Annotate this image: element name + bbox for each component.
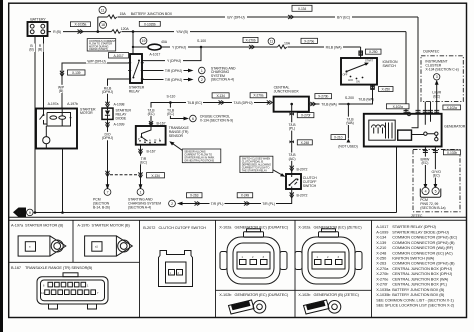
legend list entry X-1035b: [376, 293, 445, 297]
svg-text:7: 7: [107, 190, 109, 194]
svg-text:SEE COMMON CONN. LIST - (SECTI: SEE COMMON CONN. LIST - (SECTION X-1): [376, 298, 454, 302]
svg-text:a: a: [29, 246, 31, 249]
svg-text:CENTRAL JUNCTION BOX (DPHJ): CENTRAL JUNCTION BOX (DPHJ): [392, 272, 453, 276]
label Y/W (B): [174, 29, 190, 34]
svg-text:2: 2: [171, 202, 173, 206]
pointer arrow from clutch note: [273, 170, 283, 176]
connector label X-102a left: [386, 104, 409, 109]
inline connector chevron on D/O wire: [106, 171, 110, 177]
inline connector chevron B-167 out: [139, 149, 143, 155]
relay output wire to circle 1: [142, 70, 188, 72]
battery negative wire to ground rail: [34, 36, 36, 213]
svg-text:1: 1: [317, 255, 319, 259]
connector label X-210: [331, 135, 346, 140]
label Y (DPHJ) relay branch: [165, 58, 183, 63]
label IGNITION SWITCH: [383, 60, 398, 68]
T/LB feed corner to TR sensor: [151, 103, 269, 127]
label T/LB (PL): [285, 122, 299, 130]
svg-text:R: R: [144, 138, 146, 142]
label T/LB (EC) on run: [186, 100, 203, 105]
fuse 15A squiggle: [108, 15, 118, 19]
svg-text:X-270b: X-270b: [245, 38, 255, 42]
transaxle range sensor B-167: [136, 126, 166, 145]
PCM pin circle 5: [432, 187, 439, 194]
label T/R (DPHJ) lower: [164, 77, 184, 82]
destination circle 2 starting and charging: [199, 76, 206, 83]
svg-text:G: G: [17, 211, 21, 217]
svg-text:11: 11: [101, 8, 105, 12]
svg-text:T/LB (EC): T/LB (EC): [187, 101, 202, 105]
svg-text:11: 11: [270, 40, 274, 44]
cluster wires down to generator: [425, 102, 430, 114]
svg-text:STARTER RELAY DIODE (DPHJ): STARTER RELAY DIODE (DPHJ): [392, 230, 449, 234]
svg-text:X-1035b: X-1035b: [144, 22, 156, 26]
label INSTRUMENT CLUSTER X-134 (SECTION C-e): [425, 60, 458, 72]
legend list entry X-1035a: [376, 288, 445, 292]
svg-text:T/R (PL): T/R (PL): [262, 202, 275, 206]
svg-text:(SECTION A-4): (SECTION A-4): [211, 78, 234, 82]
legend list entry X-248: [376, 251, 453, 255]
connector label X-263: [187, 193, 203, 198]
legend list entry X-270b: [376, 272, 453, 276]
arrowhead into circle 6: [184, 117, 190, 121]
svg-text:X-263: X-263: [376, 262, 386, 266]
arrowhead into circle 1 low: [139, 184, 143, 190]
starter relay diode A-1099: [102, 108, 113, 119]
svg-text:ACC: ACC: [348, 78, 353, 82]
label T/R (PL): [210, 201, 225, 206]
dashed tie wire to T/R circuit: [110, 174, 139, 176]
scan edge strip: [0, 0, 3, 332]
relay output wire to circle 2: [142, 79, 188, 81]
node splice S-100: [200, 46, 203, 49]
svg-text:2: 2: [178, 271, 180, 275]
connector label X-270e fuse row: [301, 38, 318, 43]
svg-text:A-1017: A-1017: [113, 54, 123, 58]
svg-text:IGNITION SWITCH (WA): IGNITION SWITCH (WA): [392, 257, 435, 261]
svg-text:X-250: X-250: [382, 88, 391, 92]
connector label X-270b right: [315, 94, 332, 99]
arrowheads into PCM circles: [424, 184, 428, 189]
legend icon TR sensor connector B-167: [37, 273, 108, 309]
svg-text:X-270a: X-270a: [376, 267, 389, 271]
inline connector chevron A-1098: [106, 102, 110, 108]
inline connector chevron on R (B) wire: [78, 30, 84, 34]
svg-text:1: 1: [201, 69, 203, 73]
svg-text:A-1099: A-1099: [114, 123, 125, 127]
legend list entry X-270f: [376, 283, 447, 287]
svg-text:X-134: X-134: [376, 236, 387, 240]
svg-text:(EC): (EC): [433, 174, 440, 178]
circle marker 11 top: [99, 6, 106, 13]
svg-text:OR NEUTRAL POSITIONS: OR NEUTRAL POSITIONS: [184, 159, 214, 163]
inline connector chevron A-1099: [106, 122, 110, 128]
svg-text:X-210: X-210: [334, 136, 343, 140]
svg-text:(PL): (PL): [289, 127, 295, 131]
PCM pin circle 4: [422, 187, 429, 194]
label B/Y (DPHJ) on 15A row: [225, 15, 247, 20]
svg-text:RELAY: RELAY: [129, 89, 141, 93]
label T/R (PL) 2: [261, 201, 276, 206]
note CRUISE CONTROL X-134 (SECTION N-9): [200, 114, 233, 122]
svg-text:40A: 40A: [161, 40, 168, 44]
legend header X-102b GENERATOR (B) (ZETEC): [298, 293, 359, 297]
connector label X-134 mid: [212, 93, 229, 98]
label PCM PINS 72, 99 (SECTION B-1a): [420, 198, 445, 210]
legend list entry X-134: [376, 236, 458, 240]
svg-text:X-1035a: X-1035a: [75, 23, 87, 27]
legend header X-102a GENERATOR (EC) (DURATEC): [219, 226, 289, 230]
connector label X-250 low: [379, 87, 394, 92]
svg-text:COMMON CONNECTOR (WA) (RF): COMMON CONNECTOR (WA) (RF): [392, 246, 454, 250]
svg-text:(B): (B): [59, 89, 63, 93]
svg-text:X-270e: X-270e: [376, 277, 388, 281]
label CENTRAL JUNCTION BOX: [274, 86, 300, 94]
svg-text:X-102b: X-102b: [298, 293, 310, 297]
svg-text:DIODE: DIODE: [116, 116, 127, 120]
legend icon generator connector ZETEC: [295, 229, 362, 284]
svg-text:Y (DPHJ): Y (DPHJ): [167, 59, 181, 63]
arrowhead into circle 1: [188, 69, 194, 73]
generator regulator block: [398, 130, 412, 140]
battery: [28, 22, 48, 36]
svg-text:COMMON CONNECTOR (EC) (AC): COMMON CONNECTOR (EC) (AC): [392, 251, 453, 255]
svg-text:(NOT USED): (NOT USED): [338, 144, 358, 148]
legend list entry X-263: [376, 262, 455, 266]
svg-text:TRANSAXLE RANGE (TR) SENSOR(B): TRANSAXLE RANGE (TR) SENSOR(B): [25, 266, 93, 270]
svg-text:X-134 (SECTION N-9): X-134 (SECTION N-9): [200, 118, 233, 122]
ground marker G blob: [13, 208, 33, 218]
svg-text:B-14, B-2b): B-14, B-2b): [93, 205, 110, 209]
S-200 stub wire X-210: [347, 104, 349, 139]
svg-text:X-102b: X-102b: [219, 293, 231, 297]
note box switch closes: [240, 156, 273, 172]
svg-text:X-250: X-250: [369, 50, 378, 54]
B-167 label above sensor: [149, 121, 153, 126]
svg-text:X-270f: X-270f: [376, 283, 388, 287]
svg-text:SENSOR: SENSOR: [169, 134, 184, 138]
svg-text:D: D: [155, 138, 157, 142]
label T/LB (EC) sensor drop: [146, 108, 156, 116]
svg-text:B-2072: B-2072: [297, 194, 308, 198]
svg-text:5: 5: [435, 189, 437, 193]
svg-text:BATTERY: BATTERY: [30, 17, 46, 21]
svg-text:T/R (DPHJ): T/R (DPHJ): [165, 69, 182, 73]
svg-text:2: 2: [327, 255, 329, 259]
svg-text:10A: 10A: [284, 42, 291, 46]
clutch cutoff switch B-2072: [286, 174, 301, 189]
node fuse branch: [132, 46, 134, 48]
inline connector chevron on B/Y wire: [288, 15, 294, 19]
svg-text:S-100: S-100: [197, 39, 206, 43]
connector label X-248: [297, 140, 312, 145]
svg-text:SWITCH: SWITCH: [303, 184, 317, 188]
generator box: [364, 114, 442, 147]
15A fuse row wire: [98, 16, 418, 18]
label R/LB (WA): [324, 45, 343, 50]
svg-text:GENERATOR: GENERATOR: [444, 125, 466, 129]
svg-text:X-270b: X-270b: [318, 95, 328, 99]
starter relay S-100 branch wire: [142, 47, 201, 61]
inline connector chevron X-134 on T/LB run: [219, 101, 225, 105]
destination circle 1 starting and charging: [199, 67, 206, 74]
svg-text:DURATEC: DURATEC: [423, 50, 440, 54]
svg-text:1: 1: [140, 190, 142, 194]
svg-text:A-1099: A-1099: [376, 230, 388, 234]
legend list entry X-270a: [376, 267, 453, 271]
svg-text:18: 18: [101, 23, 105, 27]
svg-text:X-248: X-248: [376, 251, 386, 255]
connector label X-250 top: [365, 49, 381, 54]
inline connector chevron on Y wire: [249, 45, 255, 49]
connector label X-270f: [297, 113, 314, 118]
legend list entry A-1099: [376, 230, 449, 234]
starter motor A-197: [36, 109, 77, 149]
svg-text:COMMON CONNECTOR (DPHJ) (EC): COMMON CONNECTOR (DPHJ) (EC): [392, 236, 458, 240]
svg-text:SWITCH: SWITCH: [383, 64, 397, 68]
generator internal links: [412, 114, 437, 138]
connector label X-1035a: [70, 22, 90, 27]
svg-text:S-200: S-200: [345, 96, 354, 100]
diode output wire down: [107, 119, 109, 185]
svg-text:X-134: X-134: [216, 94, 225, 98]
svg-text:(B): (B): [38, 48, 42, 52]
svg-text:(EC): (EC): [140, 161, 147, 165]
bowtie connector X-248: [290, 140, 294, 143]
svg-text:A-1017: A-1017: [149, 52, 160, 56]
svg-text:6: 6: [192, 117, 194, 121]
svg-text:START: START: [365, 59, 373, 63]
svg-text:3: 3: [436, 75, 438, 79]
svg-text:(WA): (WA): [346, 121, 354, 125]
svg-text:X-102a: X-102a: [393, 105, 403, 109]
svg-text:X-270f: X-270f: [301, 114, 310, 118]
svg-text:120A: 120A: [121, 27, 130, 31]
svg-text:6: 6: [43, 284, 45, 288]
connector label X-139: [68, 70, 86, 75]
svg-text:COMMON CONNECTOR (DPHJ) (B): COMMON CONNECTOR (DPHJ) (B): [392, 262, 455, 266]
svg-text:T/LB (WA): T/LB (WA): [358, 97, 373, 101]
clutch switch lower wire: [183, 189, 292, 204]
wire down to ignition switch: [360, 47, 362, 58]
inline connector chevron X-134 low: [139, 172, 143, 178]
legend vertical dividers: [73, 220, 372, 317]
pointer arrow from sensor note: [172, 143, 183, 151]
svg-text:BATTERY JUNCTION BOX (B): BATTERY JUNCTION BOX (B): [392, 293, 445, 297]
label TRANSAXLE RANGE (TR) SENSOR: [169, 126, 190, 138]
svg-text:X-102b: X-102b: [447, 151, 457, 155]
svg-text:X-250: X-250: [376, 257, 386, 261]
legend header B-167 TRANSAXLE RANGE (TR) SENSOR(B): [11, 266, 93, 270]
svg-text:N: N: [149, 139, 151, 143]
label T/LB (EC) branch: [165, 108, 175, 116]
bowtie connector X-270f: [290, 112, 294, 115]
arrow up into circle 3: [436, 84, 438, 89]
svg-text:B/Y (EC): B/Y (EC): [337, 15, 350, 19]
wire drop from bus to starter relay: [132, 32, 134, 54]
wire 40A feed row: [161, 46, 360, 48]
label T/LB (WA): [320, 102, 339, 107]
node splice S-200: [347, 103, 350, 106]
destination circle 3 instrument cluster: [434, 74, 440, 80]
svg-text:A-1017: A-1017: [376, 225, 388, 229]
legend header A-197b STARTER MOTOR (B): [77, 224, 130, 228]
legend icon starter motor connector A-197a: [18, 236, 66, 256]
connector label X-249: [237, 193, 253, 198]
node splice S-110: [169, 101, 172, 104]
svg-text:3: 3: [263, 255, 265, 259]
svg-text:L: L: [159, 137, 161, 141]
label R/LB (DPHJ): [99, 86, 116, 94]
label W/P (B): [56, 85, 66, 93]
svg-text:X-134: X-134: [151, 174, 160, 178]
legend row divider generator block: [216, 289, 372, 291]
svg-text:X-102a: X-102a: [447, 106, 457, 110]
svg-text:X-210: X-210: [376, 246, 386, 250]
ZETEC dash box: [413, 150, 460, 212]
svg-text:X-1035b: X-1035b: [376, 293, 390, 297]
svg-text:JUNCTION BOX: JUNCTION BOX: [274, 89, 300, 93]
inline connector chevron B-2072 low: [290, 192, 294, 198]
connector label X-102b: [443, 150, 460, 155]
label B/Y (EC): [335, 15, 352, 20]
legend list entry X-139: [376, 241, 455, 245]
svg-text:(DPHJ): (DPHJ): [102, 136, 113, 140]
svg-text:B-2072: B-2072: [297, 168, 308, 172]
svg-text:A-197b: A-197b: [67, 102, 78, 106]
svg-text:X-270e: X-270e: [304, 39, 314, 43]
inline connector chevron out of CJB: [310, 102, 316, 106]
svg-text:7: 7: [97, 291, 99, 295]
legend header B-2072 CLUTCH CUTOFF SWITCH: [143, 226, 206, 230]
battery positive cable label R (B): [37, 44, 44, 53]
legend icon ring terminal ZETEC: [304, 300, 341, 314]
svg-text:SEE SPLICE LOCATION LIST (SECT: SEE SPLICE LOCATION LIST (SECTION X-2): [376, 304, 455, 308]
svg-text:X-139: X-139: [376, 241, 386, 245]
svg-text:X-270a: X-270a: [253, 94, 263, 98]
relay label box A-1017: [109, 53, 129, 59]
svg-text:X-248: X-248: [301, 141, 310, 145]
svg-text:X-270b: X-270b: [376, 272, 388, 276]
fuse 10A squiggle: [278, 45, 288, 49]
note box sensor allows current: [182, 149, 221, 163]
battery negative wire label B (B): [29, 44, 36, 53]
connector label X-270a: [250, 93, 267, 98]
note STARTING AND CHARGING SYSTEM low: [128, 198, 161, 210]
generator terminals: [407, 112, 410, 115]
svg-text:THE STARTER RELAY: THE STARTER RELAY: [242, 169, 268, 173]
fuse 120A squiggle on bus: [112, 30, 122, 34]
generator ground wire: [396, 147, 398, 213]
CJB down wire to clutch switch: [291, 104, 293, 174]
legend top double line: [9, 217, 467, 220]
connector label X-134 low: [147, 173, 165, 178]
legend icon ring terminal DURATEC: [229, 300, 266, 314]
destination circle 7 PCM: [104, 189, 111, 196]
legend icon starter motor connector A-197b: [85, 236, 133, 256]
fusible link oval A-1017: [148, 44, 161, 50]
generator stator coil internals: [369, 120, 395, 140]
svg-text:ON: ON: [356, 80, 360, 84]
svg-text:T/R (PL): T/R (PL): [211, 202, 224, 206]
svg-text:B-2072: B-2072: [143, 226, 155, 230]
legend icon generator connector DURATEC: [220, 229, 287, 284]
svg-text:GENERATOR (B) (ZETEC): GENERATOR (B) (ZETEC): [314, 293, 360, 297]
svg-text:14: 14: [41, 291, 44, 295]
wire drop to generator from main bus: [405, 32, 407, 114]
inline connector chevron T/R PL 2: [244, 202, 250, 206]
label G/Y/O (EC): [431, 169, 442, 177]
svg-text:T/LB (DPHJ): T/LB (DPHJ): [234, 101, 253, 105]
svg-text:(DPHJ): (DPHJ): [102, 90, 113, 94]
inline connector chevron B-2072 top: [290, 166, 294, 172]
label T/LB (AC): [285, 153, 299, 161]
svg-text:BATTERY JUNCTION BOX (B): BATTERY JUNCTION BOX (B): [392, 288, 445, 292]
ground rail: [34, 212, 397, 214]
arrowhead into circle 2 bottom: [177, 202, 183, 206]
legend icon clutch cutoff switch connector: [159, 251, 193, 287]
svg-text:(SECTION A-4): (SECTION A-4): [128, 205, 151, 209]
svg-text:B/Y (DPHJ): B/Y (DPHJ): [227, 15, 244, 19]
destination circle 1 starting charging low: [137, 189, 144, 196]
svg-text:T/LB (WA): T/LB (WA): [321, 103, 336, 107]
label STARTER RELAY DIODE: [116, 109, 132, 121]
svg-text:R (B): R (B): [53, 30, 61, 34]
svg-text:(EC): (EC): [421, 161, 428, 165]
connector hatch marks X-102a: [404, 110, 440, 112]
svg-text:X-263: X-263: [190, 194, 199, 198]
svg-text:COMMON CONNECTOR (DPHJ) (B): COMMON CONNECTOR (DPHJ) (B): [392, 241, 455, 245]
note PCM (SECTION B-14, B-2b): [93, 198, 110, 210]
label T/LB (DPHJ): [232, 100, 254, 105]
legend list entry X-210: [376, 246, 454, 250]
svg-text:1: 1: [87, 284, 89, 288]
circle marker 19: [140, 37, 147, 44]
svg-text:OFF: OFF: [343, 73, 348, 77]
battery positive cable to starter motor: [43, 36, 45, 109]
legend header X-102b GENERATOR (EC) (DURATEC): [219, 293, 289, 297]
svg-text:S-110: S-110: [167, 95, 176, 99]
inline connector chevron on W/P drop: [60, 71, 64, 77]
svg-text:A-197a: A-197a: [11, 224, 24, 228]
legend list entry X-270e: [376, 277, 449, 281]
svg-text:X-249: X-249: [241, 194, 250, 198]
connector label X-102a right: [443, 105, 461, 110]
svg-text:(B): (B): [29, 48, 33, 52]
starter relay A-1017: [128, 54, 144, 83]
W/P wire to relay: [62, 63, 130, 109]
generator wire L to cluster: [436, 89, 438, 114]
svg-text:B-167: B-167: [11, 266, 21, 270]
svg-text:GENERATOR (EC) (ZETEC): GENERATOR (EC) (ZETEC): [314, 226, 363, 230]
label D/O (DPHJ): [99, 132, 116, 141]
label CLUTCH CUTOFF SWITCH: [303, 176, 317, 188]
ground rail junction dots: [34, 211, 37, 214]
destination circle 2 bottom: [169, 200, 176, 207]
svg-text:GENERATOR (EC) (DURATEC): GENERATOR (EC) (DURATEC): [235, 293, 289, 297]
svg-text:X-139: X-139: [72, 71, 81, 75]
generator output wires to PCM: [425, 147, 435, 186]
svg-text:2: 2: [201, 78, 203, 82]
stub end arrow not used: [347, 139, 351, 143]
wire battery to bus R (B): [48, 31, 407, 33]
svg-text:R/LB (WA): R/LB (WA): [326, 46, 342, 50]
svg-text:Y (DPHJ): Y (DPHJ): [172, 46, 186, 50]
legend header A-197a STARTER MOTOR (B): [11, 224, 64, 228]
note STARTING AND CHARGING SYSTEM (SECTION A-4): [211, 66, 236, 81]
svg-text:1: 1: [170, 271, 172, 275]
label W/P (DPHJ): [86, 59, 107, 64]
